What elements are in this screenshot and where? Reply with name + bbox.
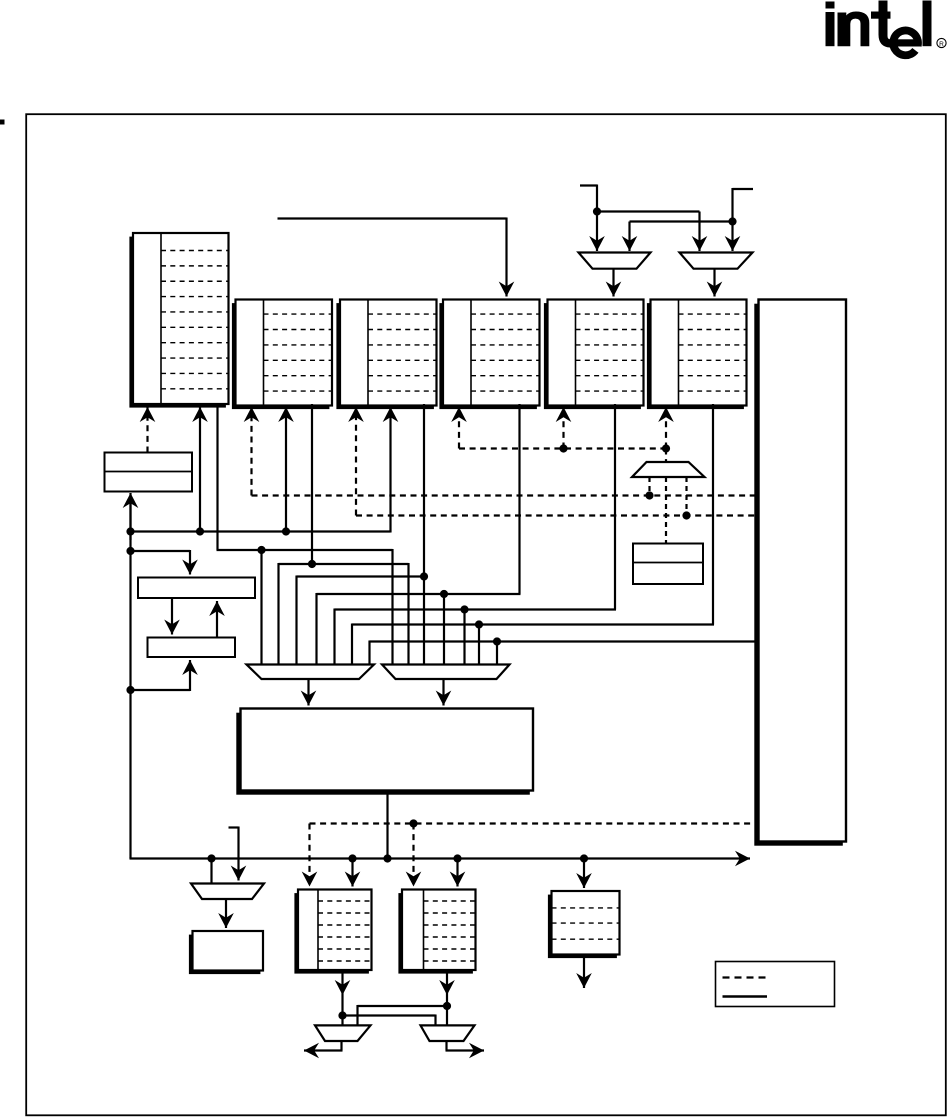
ALU box — [236, 709, 533, 795]
box B1 (2-row, instruction pointer) — [105, 453, 193, 492]
node bus ALU — [383, 854, 391, 862]
node L5 — [460, 605, 468, 613]
register A output wire — [341, 970, 343, 1025]
legend box — [716, 962, 835, 1007]
register file block 4 — [439, 300, 539, 410]
node DS2 — [682, 511, 690, 519]
wire rail to box B3 bottom — [131, 689, 191, 691]
demux D (inverted trapezoid) — [632, 462, 705, 477]
wire cross to mux M2 left input — [597, 210, 700, 212]
dashed control line 2 — [356, 514, 759, 516]
solid wire up to register 2 (write port) — [285, 407, 287, 532]
wire stub top-right of mux M2 — [733, 188, 754, 190]
dashed wire up to register 6 — [665, 407, 667, 449]
wire bus to mux C left input — [210, 859, 212, 884]
dashed control line 1 — [252, 494, 759, 496]
register file block 3 — [336, 300, 436, 410]
solid wire up to register 1 (write port) — [199, 407, 201, 532]
register B (bottom) — [398, 890, 475, 974]
node XA — [338, 1011, 346, 1019]
wire from bus interface block to mux input 7 — [370, 640, 759, 642]
node R2 — [126, 686, 134, 694]
box B3 — [148, 638, 236, 658]
register 1 output wire — [216, 404, 218, 550]
node R1 — [126, 547, 134, 555]
register 4 output wire — [518, 404, 520, 594]
demux center dashed stub to box B4 — [665, 477, 667, 544]
mux C (bottom left) — [191, 884, 264, 900]
node L4 — [440, 590, 448, 598]
register file block 2 — [232, 300, 332, 410]
solid wire up to register 3 (write port) — [389, 407, 391, 533]
wire to left mux input 1 — [260, 550, 262, 664]
write-back distribution wire — [131, 530, 391, 532]
result rail vertical — [129, 496, 131, 859]
wire to right mux input 5 — [463, 610, 465, 665]
node L7 — [493, 637, 501, 645]
tall block right (bus interface) — [754, 300, 846, 846]
wire to left mux input 2 — [277, 563, 279, 664]
wire box B3 to box B2 — [216, 601, 218, 638]
box B2 — [138, 578, 255, 599]
source mux B (right) — [382, 665, 510, 680]
wire to left mux input 6 — [351, 624, 353, 665]
node BB2 — [348, 854, 356, 862]
dashed distribution wire to registers 4-6 — [459, 447, 666, 449]
wire into mux M1 left input — [596, 185, 598, 252]
register A (bottom) — [294, 890, 371, 974]
wire to left mux input 3 — [295, 576, 297, 665]
wire to right mux input 7 — [496, 642, 498, 665]
cross wire B to mux E — [358, 1005, 448, 1007]
mux F output arrow right — [445, 1041, 447, 1051]
node on M1 input wire — [593, 207, 601, 215]
register 2 output wire — [311, 404, 313, 564]
dashed wire into demux top — [665, 449, 667, 463]
bus horizontal with arrow — [129, 858, 131, 859]
wire into mux M2 right input — [731, 188, 733, 251]
dashed wire up to register 4 — [458, 407, 460, 449]
box B5 — [189, 931, 263, 974]
margin tick — [0, 120, 5, 125]
register 3 output wire to right mux input 3 — [423, 404, 425, 664]
wire to right mux input 2 — [407, 563, 409, 664]
demux right stub to dashed line 2 — [685, 477, 687, 516]
register B output wire — [446, 970, 448, 1025]
register C output arrow — [583, 955, 585, 989]
wire mux M2 output to register 6 — [713, 269, 715, 297]
cross wire A to mux F — [343, 1014, 436, 1016]
wire to right mux input 6 — [478, 625, 480, 665]
wire to left mux input 5 — [333, 609, 335, 665]
wire box B2 to box B3 — [171, 598, 173, 635]
wire mux A output to ALU — [307, 679, 309, 706]
svg-text:R: R — [939, 41, 944, 48]
wire to right mux input 4 — [443, 594, 445, 664]
node DB — [409, 819, 417, 827]
dashed bus horizontal — [310, 822, 759, 824]
node L6 — [475, 620, 483, 628]
wire mux M1 output to register 5 — [612, 269, 614, 297]
register C (small, right) — [548, 891, 620, 958]
wire bus into register A — [351, 859, 353, 887]
node W3 — [282, 527, 290, 535]
arrow into box B1 bottom — [129, 493, 131, 540]
register file block 5 — [544, 300, 644, 410]
wire rail to box B2 — [131, 550, 191, 552]
box B4 (2-row, under demux) — [633, 544, 703, 585]
dashed wire up to register 3 — [355, 407, 357, 516]
long wire from left into register 4 — [278, 217, 507, 219]
node BB4 — [580, 854, 588, 862]
stub wire into mux C right input — [229, 826, 239, 828]
wire bus into register C — [583, 859, 585, 889]
ALU output wire — [386, 791, 388, 859]
mux M2 — [680, 253, 753, 269]
register 6 output wire — [712, 404, 714, 625]
intel logo — [826, 1, 947, 56]
node L3 — [420, 572, 428, 580]
mux F (output right) — [421, 1025, 475, 1041]
node on M2 input wire — [728, 217, 736, 225]
wire stub top-left of mux M1 — [580, 184, 597, 186]
wire cross to mux M1 right input — [630, 220, 733, 222]
wire mux B output to ALU — [442, 679, 444, 706]
node L2 — [308, 560, 316, 568]
node DS1 — [645, 491, 653, 499]
register file block 6 — [647, 300, 747, 410]
source mux A (left) — [247, 665, 375, 680]
mux M1 — [579, 253, 651, 269]
register file block 1 (tall) — [129, 233, 228, 408]
wire mux C output to box B5 — [225, 899, 227, 928]
wire to left mux input 4 — [315, 593, 317, 664]
mux E (output left) — [315, 1025, 371, 1041]
node XB — [443, 1002, 451, 1010]
node D1 — [559, 444, 567, 452]
node W2 — [196, 527, 204, 535]
dashed wire up to register 5 — [562, 407, 564, 449]
node W1 — [126, 527, 134, 535]
register 5 output wire — [614, 404, 616, 610]
dashed wire up to register 2 — [250, 407, 252, 496]
wire to right mux input 1 — [391, 549, 393, 664]
dashed wire into register B — [412, 824, 414, 887]
mux E output arrow left — [340, 1041, 342, 1051]
node L1 — [257, 546, 265, 554]
dashed wire into register A — [308, 824, 310, 887]
demux left stub to dashed line 1 — [648, 477, 650, 496]
node BB1 — [207, 854, 215, 862]
wire to left mux input 7 — [368, 641, 370, 665]
dashed wire from box B1 up to register 1 — [146, 407, 148, 453]
node BB3 — [453, 854, 461, 862]
node D2 — [662, 444, 670, 452]
wire bus into register B — [456, 859, 458, 887]
